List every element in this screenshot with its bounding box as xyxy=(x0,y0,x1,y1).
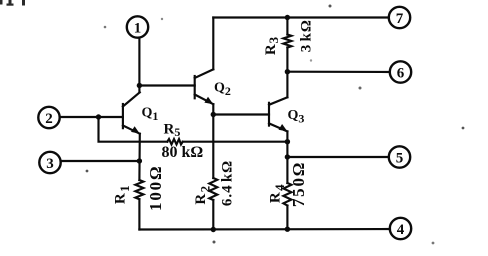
svg-text:750Ω: 750Ω xyxy=(289,161,308,207)
wire node to Q2 base xyxy=(139,84,194,86)
svg-text:R3: R3 xyxy=(263,36,281,55)
svg-text:2: 2 xyxy=(45,111,53,127)
wire terminal 2 to Q1 base xyxy=(60,116,123,118)
wire R1 to bottom rail xyxy=(138,199,140,229)
node Q1 collector / Q2 base xyxy=(137,83,142,88)
wire node down to R2 xyxy=(212,115,214,179)
wire feedback jog down and right to R5 xyxy=(99,117,168,142)
wire terminal 1 to Q1 collector node xyxy=(138,38,140,93)
terminal 2 xyxy=(38,107,59,128)
svg-text:R5: R5 xyxy=(164,122,181,140)
wire node to terminal 6 xyxy=(287,71,389,73)
svg-text:1: 1 xyxy=(134,21,142,37)
svg-text:6: 6 xyxy=(397,66,405,82)
wire Q2 collector to top rail xyxy=(212,18,214,70)
node R4 bottom xyxy=(285,227,290,232)
svg-text:Q2: Q2 xyxy=(214,81,231,99)
resistor R3 xyxy=(283,35,291,48)
node R3 top xyxy=(285,15,290,20)
node Q2 emitter / Q3 base / R2 xyxy=(211,112,216,117)
svg-text:4: 4 xyxy=(397,222,405,238)
terminal 7 xyxy=(389,7,410,28)
svg-text:R2: R2 xyxy=(193,184,213,204)
node feedback tap xyxy=(96,114,101,119)
svg-text:Q3: Q3 xyxy=(288,108,305,126)
wire R5 to Q3 emitter xyxy=(183,141,288,143)
svg-text:100Ω: 100Ω xyxy=(146,165,165,211)
terminal 4 xyxy=(390,218,411,239)
resistor R4 xyxy=(283,183,291,206)
wire R2 to bottom rail xyxy=(212,200,214,230)
terminal 5 xyxy=(389,146,410,167)
svg-text:3: 3 xyxy=(46,156,54,172)
node terminal 5 junction xyxy=(285,154,290,159)
svg-text:5: 5 xyxy=(396,151,404,167)
terminal 1 xyxy=(127,16,148,37)
node R3 bottom / terminal 6 xyxy=(285,69,290,74)
resistor R5 xyxy=(167,139,182,144)
svg-text:R1: R1 xyxy=(113,184,133,204)
transistor Q1 xyxy=(123,92,140,133)
svg-text:R4: R4 xyxy=(267,183,287,203)
node R5 / Q3 emitter xyxy=(285,139,290,144)
terminal 3 xyxy=(39,152,60,173)
wire R3 to node xyxy=(286,48,288,72)
transistor Q3 xyxy=(269,97,287,131)
wire node down to R4 xyxy=(286,157,288,183)
wire node to terminal 5 xyxy=(287,156,388,158)
transistor Q2 xyxy=(195,69,214,104)
node R2 bottom xyxy=(211,227,216,232)
wire R4 to bottom rail xyxy=(286,206,288,230)
wire node to Q3 base xyxy=(213,113,269,115)
wire Q3 emitter down through R5 node to terminal 5 node xyxy=(286,131,288,157)
wire terminal 3 to emitter column xyxy=(61,160,140,162)
terminal 6 xyxy=(390,61,411,82)
bottom rail wire xyxy=(139,228,390,231)
svg-text:6.4 kΩ: 6.4 kΩ xyxy=(220,160,236,206)
wire Q2 emitter down to node xyxy=(212,104,214,114)
wire top rail down to R3 xyxy=(286,18,288,35)
svg-text:Q1: Q1 xyxy=(142,106,159,124)
resistor R2 xyxy=(209,178,217,200)
resistor R1 xyxy=(135,180,143,199)
top rail wire xyxy=(213,16,388,18)
svg-text:7: 7 xyxy=(396,11,404,27)
wire Q1 emitter down to R1 xyxy=(138,134,141,180)
svg-text:3 kΩ: 3 kΩ xyxy=(299,19,315,52)
svg-text:80 kΩ: 80 kΩ xyxy=(162,144,204,161)
node terminal 3 junction xyxy=(137,158,142,163)
wire node down to Q3 collector xyxy=(286,72,288,98)
